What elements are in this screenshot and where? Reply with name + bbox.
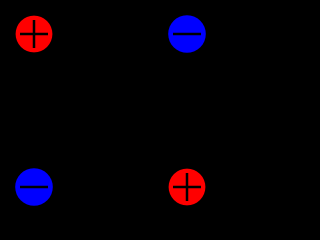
positive charge +q (top-left) bbox=[16, 16, 53, 53]
negative charge -q (top-right) bbox=[168, 15, 206, 53]
positive charge +q (bottom-right) bbox=[169, 169, 206, 206]
negative charge -q (bottom-left) bbox=[15, 168, 53, 206]
